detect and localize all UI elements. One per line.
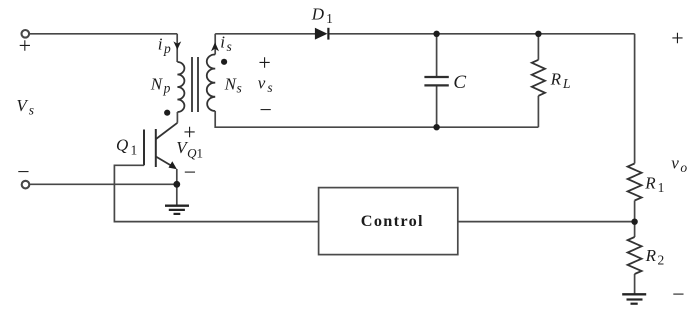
svg-text:Ns: Ns [224,74,242,95]
svg-text:+: + [258,50,270,75]
svg-text:D1: D1 [311,4,333,26]
svg-text:R1: R1 [644,173,664,195]
svg-text:Np: Np [150,74,171,95]
svg-text:Q1: Q1 [116,135,137,157]
svg-text:+: + [19,33,31,58]
svg-text:RL: RL [550,69,571,91]
svg-text:−: − [17,159,29,184]
svg-text:Control: Control [361,211,424,230]
svg-text:vo: vo [671,154,687,175]
svg-text:−: − [184,160,196,185]
svg-text:R2: R2 [645,246,665,268]
svg-text:Vs: Vs [16,96,34,117]
svg-text:is: is [220,33,232,54]
svg-text:−: − [259,97,271,122]
svg-text:+: + [671,25,683,50]
svg-text:+: + [183,120,195,145]
svg-text:vs: vs [258,74,273,95]
svg-text:−: − [672,281,684,306]
svg-text:ip: ip [158,35,171,56]
svg-text:C: C [453,72,466,93]
